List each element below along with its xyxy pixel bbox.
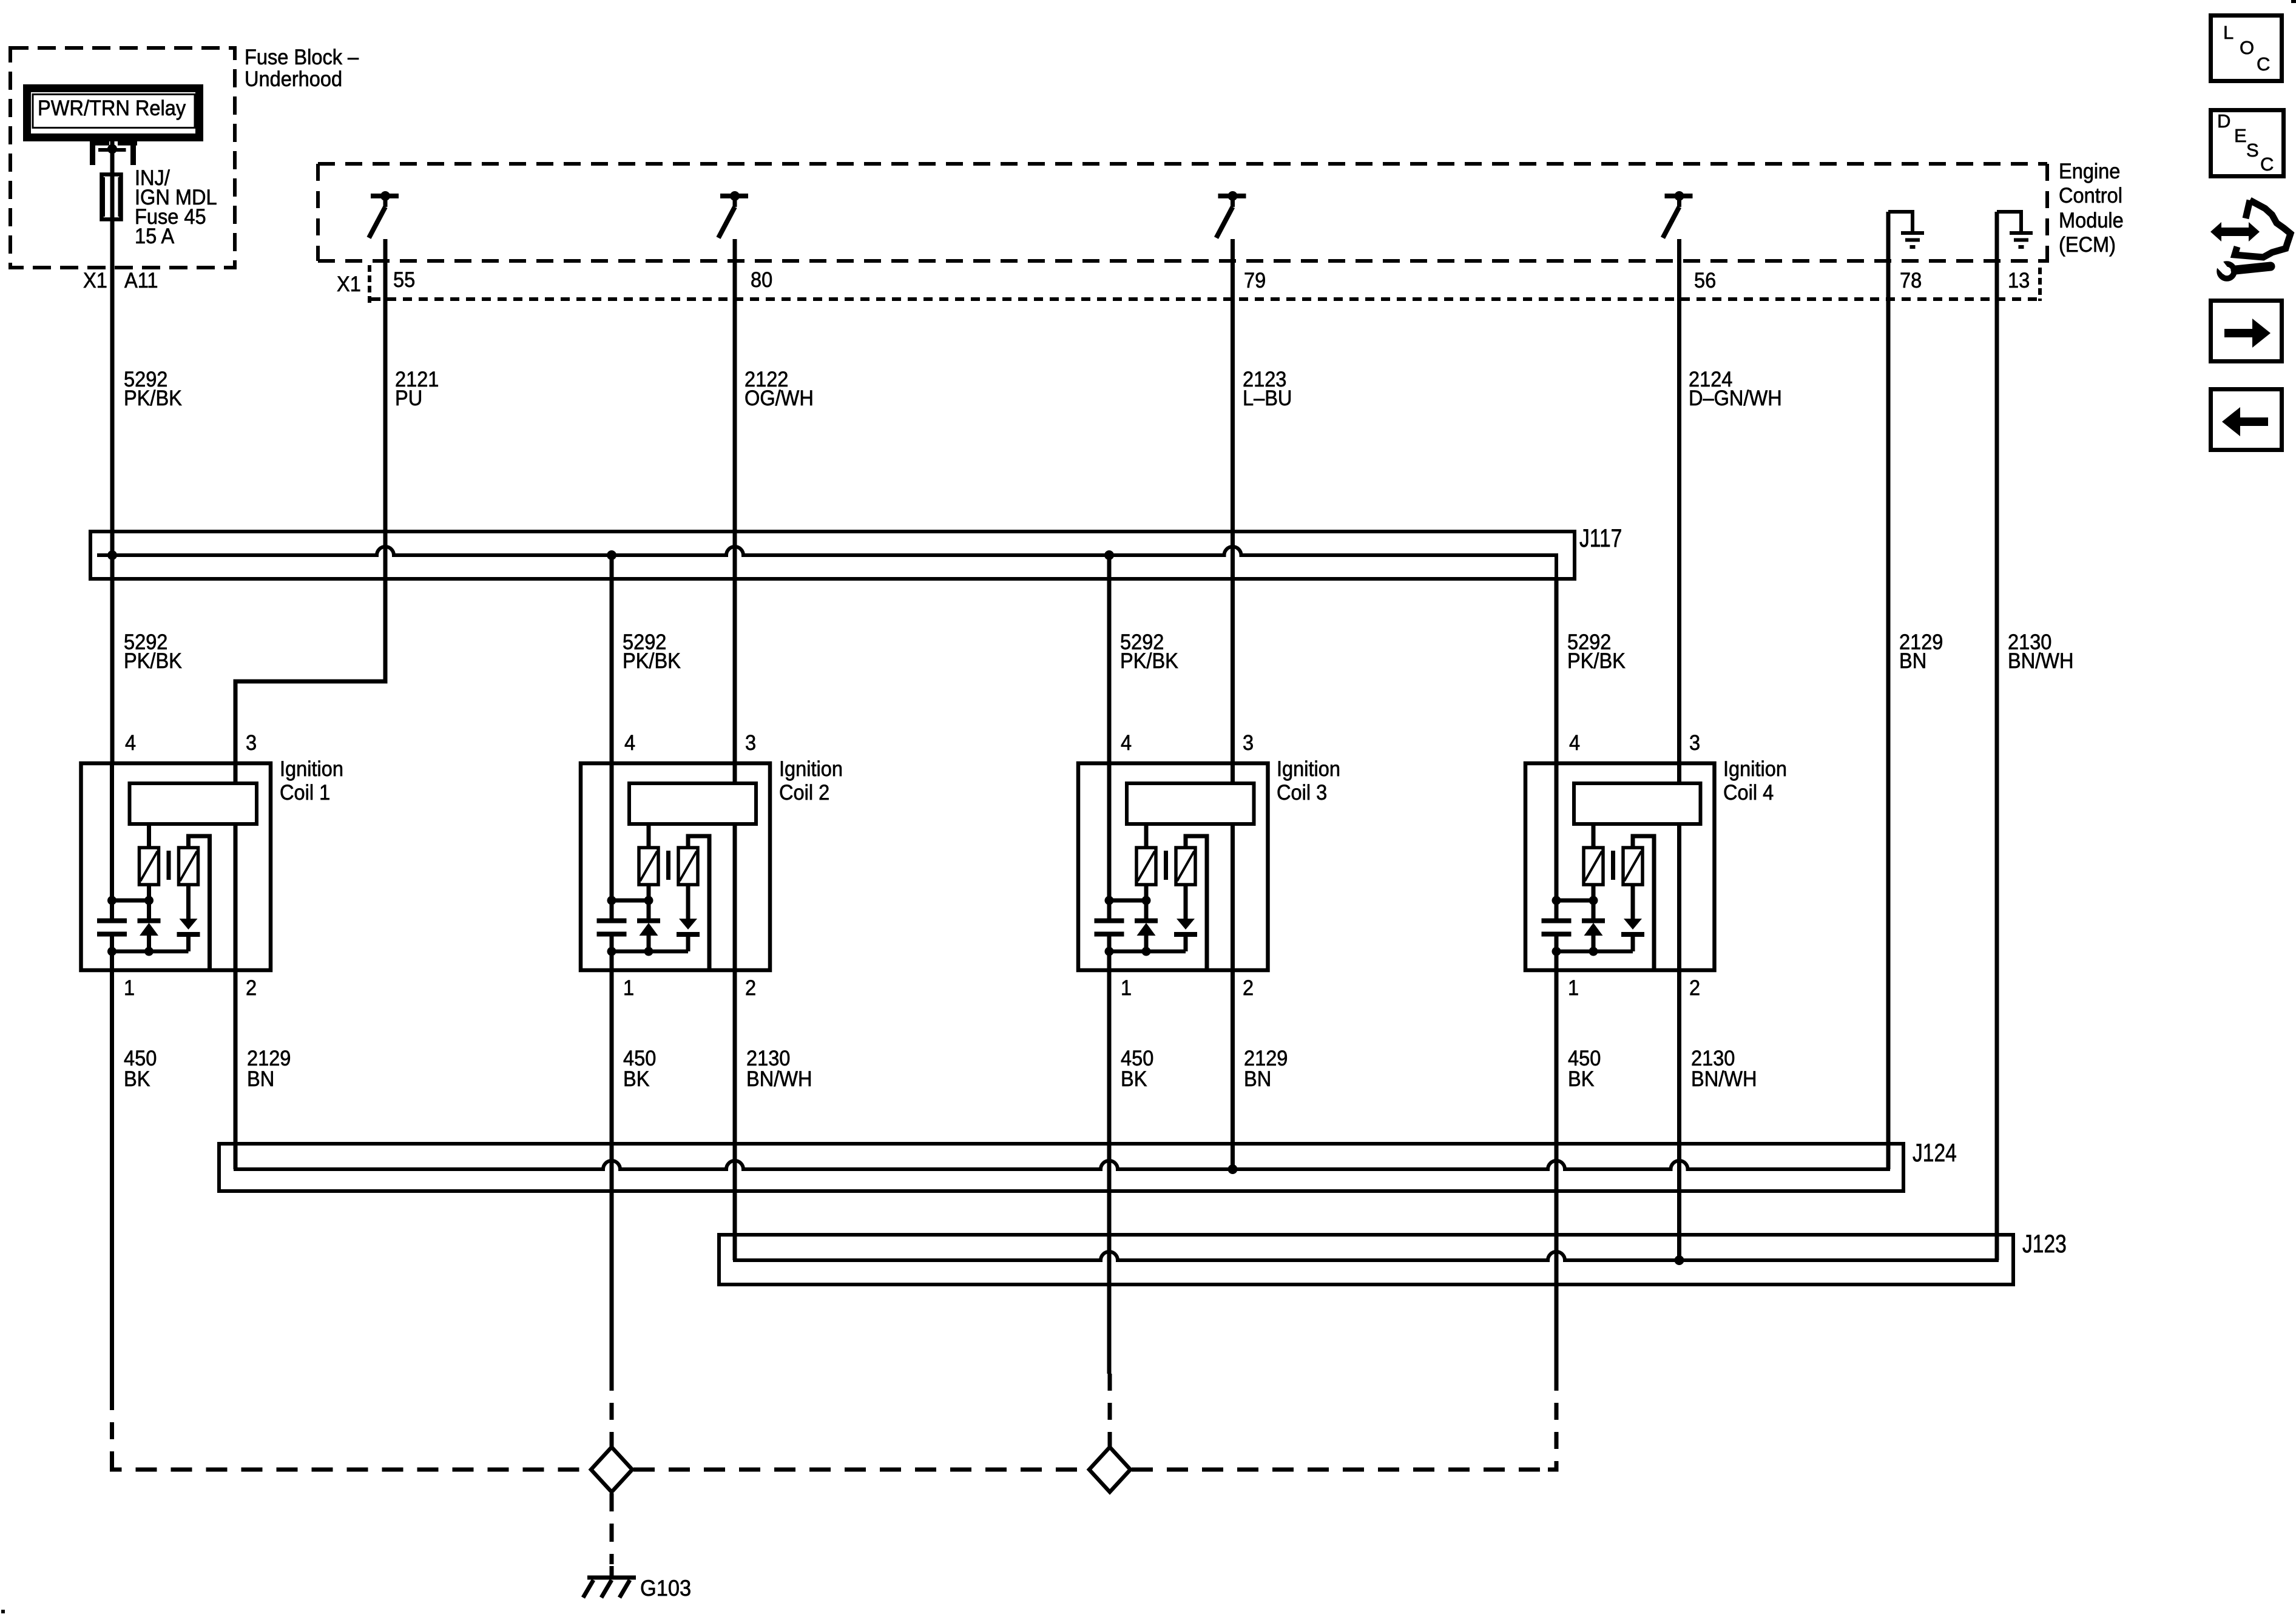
junction dot at relay output	[107, 144, 117, 154]
ECM driver output (transistor switch) pin 80	[718, 191, 748, 238]
coil 1 junction dot a	[107, 896, 116, 905]
LOC navigation box	[2211, 16, 2282, 81]
corner coil1 pin1 to ground run	[112, 1463, 122, 1470]
pin 56 label	[1694, 271, 1716, 290]
coil 1 internal ground bar	[112, 950, 189, 954]
wire label 2130 BN/WH (pin13)	[2008, 633, 2073, 670]
wire label 450 BK (coil1)	[124, 1048, 157, 1090]
fuse block label	[245, 47, 359, 90]
coil 4 capacitor C	[1542, 900, 1572, 951]
coil 2 primary winding	[629, 783, 756, 824]
forward arrow navigation box	[2211, 301, 2282, 362]
ignition coil 2 enclosure	[581, 763, 770, 970]
coil 4 pin3 internal wire	[1677, 763, 1681, 783]
wire 2129 BN ECM pin78 to splice J124	[1886, 212, 1891, 1169]
coil 1 pin3 internal wire	[234, 763, 238, 783]
wire 450 BK coil2 pin1 dashed to diamond	[610, 1374, 614, 1448]
coil 1 core bar	[167, 851, 171, 880]
fuse block - underhood dashed enclosure	[10, 48, 235, 268]
wire label 5292 PK/BK (coil4)	[1567, 633, 1626, 670]
coil 1 pin 1 label	[124, 979, 135, 998]
coil 4 resistor R1	[1584, 848, 1603, 885]
wire 450 BK coil1 pin1 down	[110, 970, 114, 1393]
coil 1 junction dot b	[144, 896, 154, 905]
dashed wire diamond to ground G103	[610, 1493, 614, 1564]
splice label J123	[2022, 1231, 2067, 1257]
ECM driver output (transistor switch) pin 79	[1217, 191, 1246, 238]
wire label 2121 PU	[395, 370, 439, 408]
coil 4 pin 2 label	[1689, 979, 1700, 998]
coil 2 junction dot d	[644, 947, 653, 956]
coil 2 pin 2 label	[745, 979, 756, 998]
wire 2124 D-GN/WH ECM pin56 to coil4 pin3	[1677, 239, 1681, 763]
coil 1 primary winding	[130, 783, 257, 824]
coil 3 internal ground bar	[1109, 950, 1186, 954]
coil 4 junction dot b	[1589, 896, 1598, 905]
relay PWR/TRN Relay box	[27, 89, 200, 138]
pin 79 label	[1244, 271, 1266, 290]
coil 3 pin2 internal wire	[1231, 824, 1235, 970]
coil 3 pin 2 label	[1243, 979, 1254, 998]
coil 2 pin3 internal wire	[733, 763, 737, 783]
coil 3 pin 3 label	[1243, 734, 1254, 752]
coil 1 junction dot c	[107, 947, 116, 956]
coil 1 pin4 internal wire	[110, 763, 114, 900]
coil 2 junction dot b	[644, 896, 653, 905]
connector X1 label (fuse block)	[83, 271, 107, 290]
ignition coil 3 name label	[1277, 757, 1340, 805]
junction J117 to coil3 pin4	[1104, 550, 1114, 560]
dashed ground run right segment	[1132, 1468, 1545, 1472]
ignition coil 1 enclosure	[81, 763, 271, 970]
coil 2 zener diode D1	[637, 885, 660, 951]
wire 2130 BN/WH ECM pin13 to splice J123	[1995, 212, 1999, 1260]
wire 2122 OG/WH ECM pin80 to coil2 pin3	[733, 239, 737, 763]
wire label 5292 PK/BK (A11)	[124, 370, 182, 408]
wire label 2129 (coil3)	[1244, 1048, 1288, 1090]
coil 1 pin 4 label	[125, 734, 136, 752]
wire 2121 PU ECM pin55 to coil1 pin3 (jog)	[235, 239, 385, 763]
coil 3 secondary return wire	[1186, 836, 1207, 970]
coil 2 pin 1 label	[623, 979, 634, 998]
coil 3 zener diode D1	[1135, 885, 1158, 951]
wire label 450 BK (coil3)	[1121, 1048, 1153, 1090]
coil 1 pin2 internal wire	[234, 824, 238, 970]
ground connector diamond 2	[1089, 1447, 1130, 1492]
coil 1 pin 2 label	[246, 979, 257, 998]
ECM name label	[2059, 160, 2124, 258]
adjust icon hand outline	[2235, 200, 2291, 257]
DESC navigation box	[2211, 110, 2284, 177]
wire 450 BK coil2 pin1 down	[610, 970, 614, 1374]
coil 2 wire between dots	[612, 899, 649, 903]
coil 3 diode D2	[1174, 885, 1197, 951]
LOC letters	[2222, 23, 2283, 84]
coil 1 resistor R2	[179, 848, 198, 885]
coil 3 junction dot d	[1142, 947, 1151, 956]
coil 1 pin1 internal wire	[110, 951, 114, 970]
ECM internal ground pin 13	[1997, 210, 2033, 247]
ECM driver output (transistor switch) pin 55	[369, 191, 399, 238]
ignition coil 3 enclosure	[1078, 763, 1268, 970]
wire label 2129 (coil1)	[247, 1048, 291, 1090]
wire 5292 PK/BK J117 to coil2 pin4	[610, 555, 614, 763]
coil 4 junction dot c	[1552, 947, 1561, 956]
wire 2130 BN/WH coil4 pin2 to J123	[1677, 970, 1681, 1260]
junction J117 at A11 feed	[107, 550, 117, 560]
coil 4 diode D2	[1621, 885, 1644, 951]
coil 3 pin1 internal wire	[1107, 951, 1112, 970]
coil 4 pin 3 label	[1689, 734, 1700, 752]
dashed ground run middle segment	[633, 1468, 1089, 1472]
coil 2 pin 4 label	[624, 734, 635, 752]
wire label 450 BK (coil4)	[1568, 1048, 1601, 1090]
ECM dashed enclosure	[318, 164, 2047, 265]
coil 4 winding tap wire	[1592, 824, 1596, 848]
ignition coil 1 name label	[280, 757, 343, 805]
coil 3 junction dot b	[1142, 896, 1151, 905]
coil 2 secondary return wire	[688, 836, 709, 970]
adjust icon wrench	[2212, 256, 2271, 279]
ground G103 label	[640, 1577, 691, 1599]
wire 2129 BN coil3 pin2 to J124	[1231, 970, 1235, 1169]
splice label J117	[1579, 525, 1622, 551]
ECM driver output (transistor switch) pin 56	[1663, 191, 1693, 238]
splice pack J117	[90, 532, 1575, 579]
coil 1 capacitor C	[97, 900, 127, 951]
wire 5292 PK/BK J117 to coil3 pin4	[1107, 555, 1112, 763]
J123 inner bus wire 2130 BN/WH	[735, 1213, 1997, 1260]
fuse 45 label	[135, 169, 217, 246]
pin 13 label	[2008, 271, 2030, 290]
wire label 5292 PK/BK (coil2)	[623, 633, 681, 670]
PWR/TRN Relay label	[38, 99, 186, 118]
ignition coil 2 name label	[779, 757, 843, 805]
wire 5292 PK/BK J117 to coil4 pin4	[1555, 579, 1559, 763]
wire 2129 BN coil1 pin2 to J124	[234, 970, 238, 1169]
back arrow navigation box	[2211, 390, 2282, 450]
coil 2 junction dot a	[607, 896, 616, 905]
adjust icon double arrow	[2210, 222, 2260, 241]
wire label 5292 PK/BK (coil3)	[1120, 633, 1178, 670]
coil 4 internal ground bar	[1556, 950, 1633, 954]
coil 4 wire between dots	[1556, 899, 1593, 903]
coil 1 pin 3 label	[246, 734, 257, 752]
pin 78 label	[1900, 271, 1922, 290]
wire label 2122 OG/WH	[745, 370, 814, 408]
ground connector diamond at G103 branch	[591, 1447, 632, 1492]
relay output terminal bracket	[90, 141, 137, 166]
junction J117 to coil2 pin4	[607, 550, 616, 560]
coil 2 resistor R1	[639, 848, 658, 885]
coil 4 secondary return wire	[1633, 836, 1654, 970]
coil 3 pin3 internal wire	[1231, 763, 1235, 783]
wire label 2130 (coil4)	[1691, 1048, 1757, 1090]
ignition coil 4 name label	[1723, 757, 1787, 805]
coil 2 resistor R2	[678, 848, 698, 885]
coil 2 pin1 internal wire	[610, 951, 614, 970]
wire 2130 BN/WH coil2 pin2 to J123	[733, 970, 737, 1260]
pin 55 label	[393, 271, 415, 289]
J124 inner bus wire 2129 BN	[235, 1128, 1888, 1169]
coil 4 pin1 internal wire	[1555, 951, 1559, 970]
splice pack J124	[219, 1144, 1903, 1191]
coil 4 pin 4 label	[1569, 734, 1580, 752]
coil 3 pin 4 label	[1121, 734, 1132, 752]
junction J124 to coil3 pin2	[1228, 1164, 1238, 1174]
coil 4 resistor R2	[1623, 848, 1643, 885]
coil 3 wire between dots	[1109, 899, 1146, 903]
coil 3 winding tap wire	[1144, 824, 1149, 848]
wire label 450 BK (coil2)	[623, 1048, 656, 1090]
coil 3 junction dot a	[1105, 896, 1114, 905]
coil 2 pin4 internal wire	[610, 763, 614, 900]
wire 450 BK coil4 pin1 dashed to ground run	[1547, 1374, 1556, 1470]
coil 4 pin4 internal wire	[1555, 763, 1559, 900]
coil 1 junction dot d	[144, 947, 154, 956]
coil 2 internal ground bar	[612, 950, 688, 954]
coil 1 wire between dots	[112, 899, 149, 903]
wire relay through fuse F45 to connector X1 pin A11	[110, 140, 115, 279]
coil 2 core bar	[666, 851, 670, 880]
coil 1 winding tap wire	[147, 824, 151, 848]
wire 450 BK coil3 pin1 dashed to diamond	[1108, 1374, 1112, 1448]
coil 2 diode D2	[677, 885, 700, 951]
wire 450 BK coil1 pin1 dashed to ground run	[110, 1393, 114, 1463]
coil 3 junction dot c	[1105, 947, 1114, 956]
ground G103 symbol	[583, 1566, 636, 1598]
coil 1 diode D2	[177, 885, 200, 951]
coil 4 zener diode D1	[1582, 885, 1605, 951]
pin A11 label	[124, 271, 158, 290]
wire 5292 PK/BK fuse A11 to coil1 pin4 (through J117)	[110, 268, 115, 763]
coil 3 resistor R2	[1176, 848, 1195, 885]
junction J123 to coil4 pin2	[1675, 1255, 1684, 1265]
coil 2 winding tap wire	[647, 824, 651, 848]
page corner mark bottom left	[1, 1610, 5, 1613]
coil 3 primary winding	[1127, 783, 1254, 824]
DESC letters	[2216, 112, 2289, 178]
coil 3 pin 1 label	[1121, 979, 1132, 998]
coil 2 junction dot c	[607, 947, 616, 956]
wire label 5292 PK/BK (coil1)	[124, 633, 182, 670]
wire label 2124 D-GN/WH	[1689, 370, 1782, 408]
coil 4 core bar	[1611, 851, 1615, 880]
wire label 2130 (coil2)	[746, 1048, 812, 1090]
splice pack J123	[719, 1235, 2013, 1284]
coil 3 core bar	[1164, 851, 1168, 880]
coil 1 zener diode D1	[138, 885, 161, 951]
dashed ground run 450 BK left segment	[136, 1468, 591, 1472]
J117 inner bus wire 5292 PK/BK	[97, 547, 1556, 579]
ECM X1 connector strip	[370, 265, 2044, 303]
coil 4 junction dot d	[1589, 947, 1598, 956]
pin 80 label	[751, 271, 772, 289]
splice label J124	[1913, 1140, 1957, 1166]
coil 2 capacitor C	[597, 900, 627, 951]
coil 3 resistor R1	[1136, 848, 1156, 885]
wire 450 BK coil4 pin1 down	[1555, 970, 1559, 1374]
coil 4 primary winding	[1574, 783, 1701, 824]
fuse F45 INJ/IGN MDL 15A	[102, 175, 121, 220]
coil 4 junction dot a	[1552, 896, 1561, 905]
wire label 2129 BN (pin78)	[1899, 633, 1943, 670]
ignition coil 4 enclosure	[1525, 763, 1715, 970]
coil 4 pin2 internal wire	[1677, 824, 1681, 970]
coil 3 pin4 internal wire	[1107, 763, 1112, 900]
page corner mark top right	[2291, 0, 2296, 3]
wire label 2123 L-BU	[1243, 370, 1292, 408]
coil 3 capacitor C	[1095, 900, 1124, 951]
coil 4 pin 1 label	[1568, 979, 1579, 998]
connector X1 label (ECM)	[337, 275, 361, 294]
coil 1 secondary return wire	[189, 836, 210, 970]
coil 2 pin2 internal wire	[733, 824, 737, 970]
ECM internal ground pin 78	[1888, 210, 1924, 247]
wire 450 BK coil3 pin1 down	[1107, 970, 1112, 1374]
wire 2123 L-BU ECM pin79 to coil3 pin3	[1231, 239, 1235, 763]
coil 1 resistor R1	[140, 848, 159, 885]
coil 2 pin 3 label	[745, 734, 756, 752]
